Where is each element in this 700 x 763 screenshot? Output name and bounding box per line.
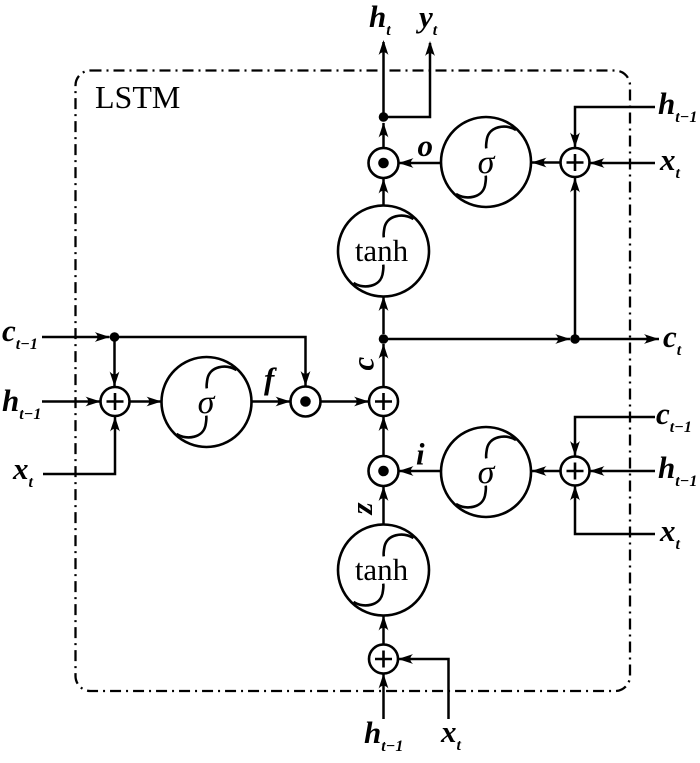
arrowhead branch into odot-f bbox=[301, 371, 311, 386]
svg-text:yt: yt bbox=[415, 0, 438, 39]
arrowhead h_t bbox=[379, 40, 389, 55]
oplus node center (cell state add) bbox=[369, 387, 398, 416]
oplus node bottom (concat h,x) bbox=[369, 645, 398, 674]
odot node o-gate (output multiply) bbox=[369, 148, 399, 178]
arrowhead into junction J1 bbox=[379, 123, 389, 138]
wire oplus-l to sigma-f bbox=[130, 400, 162, 403]
wire h_t output bbox=[382, 42, 385, 117]
tanh unit bottom circle bbox=[338, 525, 429, 616]
wire x_t top-right input bbox=[590, 162, 655, 165]
svg-text:σ: σ bbox=[478, 454, 496, 491]
arrowhead x_t into oplus-l bbox=[110, 417, 120, 432]
wire c_t-1 right input bbox=[575, 417, 655, 456]
svg-text:ht−1: ht−1 bbox=[658, 450, 697, 490]
wire x_t left input bbox=[43, 417, 115, 475]
wire h_t-1 bottom input bbox=[382, 674, 385, 719]
svg-text:ht−1: ht−1 bbox=[364, 715, 403, 755]
wire sigma-f to odot-f bbox=[252, 400, 291, 403]
odot node f-gate (forget multiply) bbox=[291, 387, 321, 417]
wire odot-f to oplus-c bbox=[321, 400, 370, 403]
wire odot-o to junction bbox=[382, 123, 385, 148]
svg-text:ht−1: ht−1 bbox=[2, 383, 41, 423]
svg-text:σ: σ bbox=[198, 384, 216, 421]
arrowhead y_t bbox=[425, 41, 435, 56]
arrowhead tanh-bottom into odot-i bbox=[379, 486, 389, 501]
arrowhead tanh-top into odot-o bbox=[379, 179, 389, 194]
oplus node bottom-right (concat h,x) bbox=[561, 457, 590, 486]
arrowhead c_t-1 into J4 bbox=[95, 332, 110, 342]
wire c line J2 to J3 bbox=[384, 338, 571, 341]
svg-text:f: f bbox=[264, 361, 277, 396]
arrowhead c_t-1 into oplus-br bbox=[570, 441, 580, 456]
wire sigma-i to odot-i bbox=[399, 470, 441, 473]
svg-text:LSTM: LSTM bbox=[95, 79, 180, 115]
arrowhead x_t into oplus-b bbox=[398, 654, 413, 664]
wire odot-i up to oplus-c bbox=[382, 417, 385, 457]
wire h_t-1 top-right input bbox=[575, 107, 655, 148]
wire tanh-top to odot-o bbox=[382, 179, 385, 206]
oplus node top-right (concat h,x) bbox=[561, 148, 590, 177]
tanh unit top circle bbox=[338, 206, 429, 297]
arrowhead c_t output bbox=[644, 334, 659, 344]
oplus node left (concat h,x) bbox=[101, 387, 130, 416]
odot node i-gate (input multiply) bbox=[369, 456, 399, 486]
arrowhead oplus-l into sigma-f bbox=[147, 397, 162, 407]
svg-text:ht−1: ht−1 bbox=[658, 86, 697, 126]
wire J4 down to oplus-l bbox=[113, 337, 116, 387]
wire y_t branch bbox=[384, 43, 431, 117]
svg-text:xt: xt bbox=[659, 142, 681, 182]
junction node J4 (c_t-1 split) bbox=[110, 332, 120, 342]
wire h_t-1 left input bbox=[42, 400, 101, 403]
LSTM cell dash-dot boundary bbox=[76, 71, 631, 692]
arrowhead h_t-1 into oplus-br bbox=[590, 466, 605, 476]
wire c junction J2 up to tanh-top bbox=[382, 297, 385, 335]
svg-text:c: c bbox=[346, 357, 381, 371]
arrowhead J3 into oplus-tr bbox=[570, 178, 580, 193]
arrowhead J2 into tanh-top bbox=[379, 296, 389, 311]
arrowhead odot-f into oplus-c bbox=[354, 397, 369, 407]
arrowhead odot-i into oplus-c bbox=[379, 416, 389, 431]
arrowhead sigma-i into odot-i bbox=[399, 466, 414, 476]
svg-text:ct: ct bbox=[663, 319, 682, 359]
sigma unit f (forget gate) circle bbox=[162, 357, 252, 447]
arrowhead J2 into J3 bbox=[555, 334, 570, 344]
junction node J1 (h/y split) bbox=[379, 112, 389, 122]
wire c_t output bbox=[575, 338, 659, 341]
wire sigma-o to odot-o bbox=[399, 162, 441, 165]
svg-text:z: z bbox=[344, 502, 379, 515]
svg-text:xt: xt bbox=[440, 714, 462, 754]
arrowhead oplus-tr into sigma-o bbox=[532, 158, 547, 168]
svg-text:ct−1: ct−1 bbox=[656, 396, 692, 436]
svg-text:i: i bbox=[416, 437, 425, 472]
wire tanh-bottom to odot-i bbox=[382, 487, 385, 525]
wire oplus-br to sigma-i bbox=[532, 470, 561, 473]
wire h_t-1 right input bbox=[590, 470, 655, 473]
junction node J2 (cell state c) bbox=[379, 334, 389, 344]
arrowhead h_t-1 into oplus-b bbox=[379, 674, 389, 689]
arrowhead oplus-br into sigma-i bbox=[532, 466, 547, 476]
svg-text:ct−1: ct−1 bbox=[2, 313, 38, 353]
arrowhead J4 into oplus-l bbox=[110, 372, 120, 387]
svg-text:tanh: tanh bbox=[355, 233, 409, 268]
arrowhead h_t-1 into oplus-l bbox=[86, 397, 101, 407]
wire c_t-1 left input bbox=[42, 336, 110, 339]
svg-text:tanh: tanh bbox=[355, 552, 409, 587]
arrowhead oplus-c into J2 bbox=[379, 344, 389, 359]
svg-text:ht: ht bbox=[369, 0, 391, 39]
svg-text:xt: xt bbox=[659, 513, 681, 553]
svg-text:xt: xt bbox=[12, 451, 34, 491]
arrowhead h_t-1 into oplus-tr bbox=[570, 133, 580, 148]
svg-text:σ: σ bbox=[478, 144, 496, 181]
arrowhead x_t into oplus-tr bbox=[590, 158, 605, 168]
sigma unit o (output gate) circle bbox=[441, 117, 531, 207]
arrowhead sigma-f into odot-f bbox=[276, 397, 291, 407]
svg-text:o: o bbox=[418, 128, 434, 163]
arrowhead x_t into oplus-br bbox=[570, 486, 580, 501]
junction node J3 (c to c_t) bbox=[570, 334, 580, 344]
wire x_t bottom input bbox=[399, 659, 449, 719]
wire c junction J3 up to oplus-tr bbox=[574, 178, 577, 339]
arrowhead sigma-o into odot-o bbox=[399, 158, 414, 168]
wire c_t-1 branch to odot-f bbox=[115, 337, 306, 386]
arrowhead oplus-b into tanh-bottom bbox=[379, 616, 389, 631]
sigma unit i (input gate) circle bbox=[441, 427, 531, 517]
wire oplus-c up to J2 bbox=[382, 344, 385, 387]
wire x_t right input bbox=[575, 486, 655, 534]
wire oplus-tr to sigma-o bbox=[532, 161, 561, 164]
wire oplus-b to tanh-bottom bbox=[382, 616, 385, 645]
